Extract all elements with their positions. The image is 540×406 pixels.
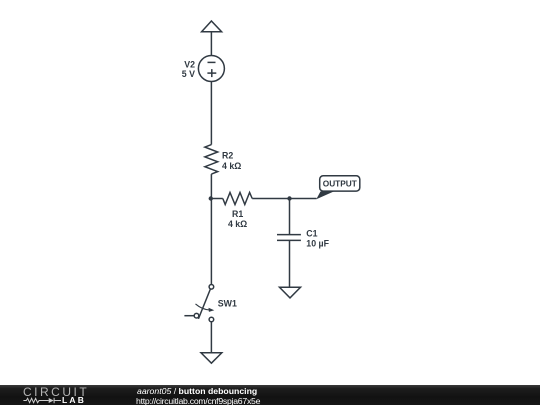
svg-text:LAB: LAB xyxy=(62,395,86,405)
svg-text:OUTPUT: OUTPUT xyxy=(323,179,357,189)
svg-text:4 kΩ: 4 kΩ xyxy=(228,219,247,229)
svg-text:V2: V2 xyxy=(184,59,195,69)
svg-text:4 kΩ: 4 kΩ xyxy=(222,161,241,171)
svg-text:SW1: SW1 xyxy=(218,299,237,309)
svg-text:10 µF: 10 µF xyxy=(306,238,329,248)
svg-text:R1: R1 xyxy=(232,209,243,219)
svg-text:5 V: 5 V xyxy=(182,69,195,79)
svg-text:C1: C1 xyxy=(306,229,317,239)
svg-text:R2: R2 xyxy=(222,151,233,161)
